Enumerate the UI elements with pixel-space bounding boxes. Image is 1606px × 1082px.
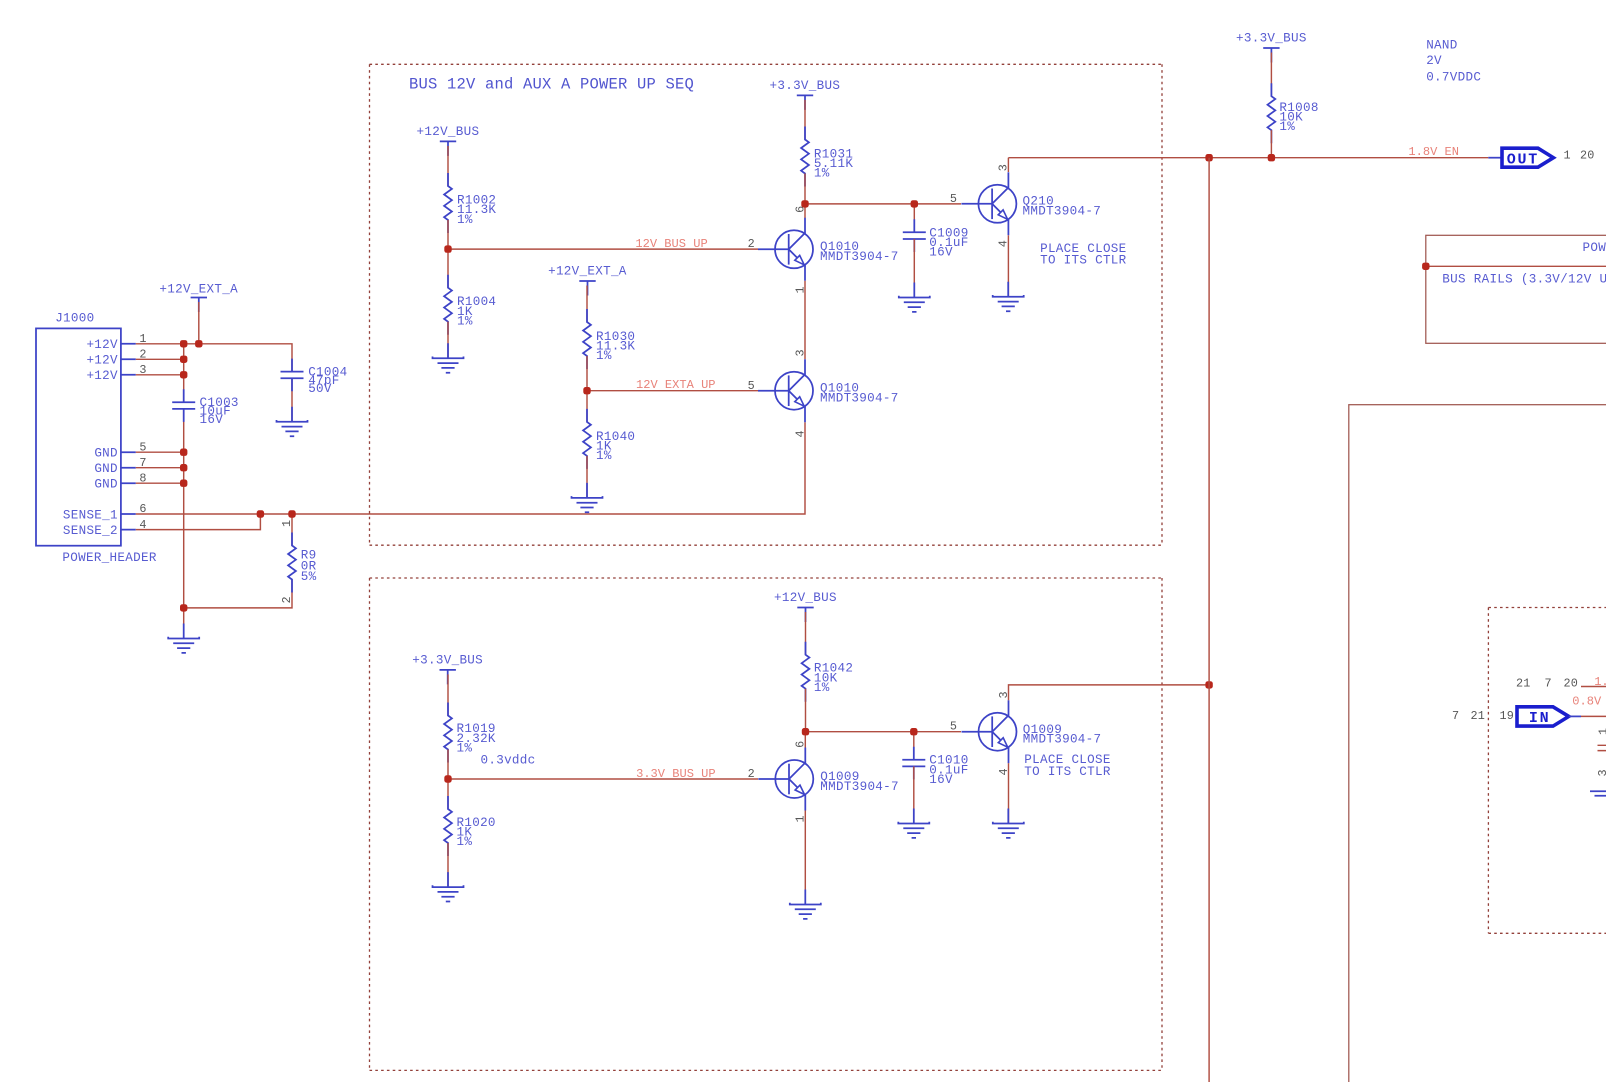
svg-text:16V: 16V (200, 413, 224, 427)
svg-text:1: 1 (793, 286, 807, 293)
resistor R1008 (1268, 83, 1319, 143)
wire R1042 to node 6b (805, 689, 807, 732)
svg-text:SENSE_2: SENSE_2 (63, 524, 118, 538)
svg-text:12V EXTA UP: 12V EXTA UP (636, 378, 716, 392)
IN pin numbers 7 21 19 (1452, 709, 1514, 723)
svg-text:2V: 2V (1426, 54, 1442, 68)
junction pin3 (180, 371, 187, 378)
wire SENSE_2 (136, 514, 261, 530)
wire SENSE_1 net (136, 422, 805, 514)
svg-text:+12V_BUS: +12V_BUS (417, 125, 480, 139)
junction node A (444, 245, 451, 252)
svg-text:+12V: +12V (86, 338, 118, 352)
capacitor C1010 (902, 747, 968, 787)
svg-text:GND: GND (94, 447, 118, 461)
svg-text:1.8: 1.8 (1594, 675, 1606, 689)
wire C1009 top (913, 204, 915, 232)
wire Q210 emitter to ground (1007, 235, 1009, 296)
svg-text:0.7VDDC: 0.7VDDC (1426, 70, 1481, 84)
junction main vertical top (1205, 154, 1212, 161)
svg-text:1%: 1% (814, 681, 830, 695)
svg-text:TO ITS CTLR: TO ITS CTLR (1040, 254, 1127, 268)
port OUT (1488, 148, 1553, 168)
resistor R1020 (444, 796, 496, 856)
svg-text:+12V: +12V (86, 369, 118, 383)
transistor Q1009 a (758, 748, 899, 811)
svg-text:1%: 1% (814, 167, 830, 181)
svg-text:2: 2 (748, 767, 755, 781)
transistor Q1009 b (962, 700, 1102, 763)
wire 12V stem to R1042 (805, 612, 807, 655)
junction sense2 tap (257, 510, 264, 517)
junction node B (583, 387, 590, 394)
box large right frame (1349, 405, 1606, 1082)
svg-text:MMDT3904-7: MMDT3904-7 (820, 780, 899, 794)
wire R1002 to R1004 node A (447, 220, 449, 288)
wire R1008 to 1.8V EN net (1270, 130, 1272, 158)
svg-text:2: 2 (748, 237, 755, 251)
svg-text:3: 3 (1596, 769, 1606, 776)
svg-text:1%: 1% (457, 835, 473, 849)
transistor Q210 (961, 172, 1101, 235)
fragment capacitor plates red (1598, 745, 1606, 750)
svg-text:4: 4 (793, 430, 807, 437)
svg-text:1%: 1% (596, 349, 612, 363)
dashed frame bottom right (1488, 608, 1606, 934)
svg-text:21: 21 (1471, 709, 1485, 723)
wire +12V rail down through C1003 (183, 344, 185, 625)
svg-text:OUT: OUT (1507, 151, 1539, 168)
svg-text:1%: 1% (457, 741, 473, 755)
svg-text:1: 1 (1597, 728, 1606, 735)
svg-text:3: 3 (997, 691, 1011, 698)
svg-text:MMDT3904-7: MMDT3904-7 (1023, 205, 1102, 219)
wire GND pin7 (136, 467, 184, 469)
wire EXT_A stem to R1030 (586, 286, 588, 323)
wire +12V_EXT_A stem (198, 302, 200, 344)
wire main vertical (1208, 158, 1210, 1082)
ground below C1010 (898, 809, 929, 838)
junction C1010 tap (910, 728, 917, 735)
wire 3.3V stem to R1031 (804, 100, 806, 140)
resistor R1040 (583, 409, 635, 469)
svg-text:16V: 16V (929, 773, 953, 787)
ground below R1004 (433, 343, 464, 372)
wire +12V_BUS stem (447, 146, 449, 186)
wire R1004 to ground (447, 322, 449, 359)
wire Q1010a emitter to Q1010b collector (804, 281, 806, 359)
wire R1019 to R1020 node (447, 750, 449, 810)
dashed frame BUS 12V and AUX A POWER UP SEQ (370, 64, 1163, 545)
wire net 12V BUS UP (448, 248, 758, 250)
capacitor C1004 (281, 359, 348, 397)
power +12V_EXT_A box1 (548, 265, 627, 296)
resistor R1002 (444, 173, 496, 233)
svg-text:MMDT3904-7: MMDT3904-7 (1023, 732, 1102, 746)
junction main vertical node (1205, 681, 1212, 688)
junction ground rail (180, 604, 187, 611)
svg-text:1%: 1% (457, 314, 473, 328)
wire Q1009a collector (804, 732, 806, 748)
dashed frame 3.3V bus power up (370, 578, 1163, 1070)
svg-text:5%: 5% (301, 570, 317, 584)
connector J1000 (36, 312, 157, 566)
wire C1004 to ground (291, 378, 293, 422)
svg-text:5: 5 (748, 379, 755, 393)
svg-text:12V BUS UP: 12V BUS UP (635, 237, 707, 251)
power +3.3V_BUS box1 (770, 79, 841, 110)
wire Q1009b collector to main vertical (1009, 685, 1210, 700)
wire C1009 to ground (913, 239, 915, 298)
wire 3.3V stem to R1019 (447, 674, 449, 715)
svg-text:5: 5 (950, 720, 957, 734)
svg-text:0.8V: 0.8V (1572, 694, 1602, 708)
svg-text:20: 20 (1564, 676, 1578, 690)
OUT pin numbers 1 20 (1564, 148, 1595, 162)
svg-text:1%: 1% (457, 213, 473, 227)
wire net 3.3V BUS UP (448, 778, 758, 780)
wire GND pin5 (136, 451, 184, 453)
ground below J1000 rail (168, 624, 199, 653)
svg-text:2: 2 (280, 596, 294, 603)
wire Q1010a collector (804, 204, 806, 218)
junction gnd7 (180, 464, 187, 471)
wire GND pin8 (136, 482, 184, 484)
svg-text:7: 7 (1545, 676, 1552, 690)
svg-text:POWER_HEADER: POWER_HEADER (62, 551, 156, 565)
svg-text:3: 3 (997, 164, 1011, 171)
junction gnd8 (180, 480, 187, 487)
port IN (1517, 707, 1581, 727)
svg-text:3: 3 (793, 349, 807, 356)
note PLACE CLOSE TO ITS CTLR box1 (1040, 242, 1127, 267)
svg-text:1.8V EN: 1.8V EN (1408, 145, 1459, 159)
transistor Q1010 b (758, 359, 899, 422)
svg-text:J1000: J1000 (55, 312, 94, 326)
ground below Q1009b (993, 809, 1024, 838)
resistor R1031 (801, 127, 853, 187)
svg-text:1%: 1% (596, 449, 612, 463)
wire 3.3V stem to R1008 (1270, 53, 1272, 97)
svg-text:MMDT3904-7: MMDT3904-7 (820, 392, 899, 406)
junction EXT_A stem (195, 340, 202, 347)
capacitor C1003 (172, 389, 239, 427)
power +3.3V_BUS box2 (412, 653, 483, 684)
wire pin1 to C1004 (136, 344, 292, 372)
wire bus rails (1426, 265, 1606, 267)
note PLACE CLOSE TO ITS CTLR box2 (1024, 753, 1111, 779)
wire R1031 to node 6 (804, 174, 806, 204)
capacitor C1009 (903, 219, 969, 259)
resistor R1019 (444, 703, 496, 763)
junction R1008 tap (1268, 154, 1275, 161)
ground below Q210 (993, 282, 1024, 311)
junction pin1 rail (180, 340, 187, 347)
svg-text:MMDT3904-7: MMDT3904-7 (820, 250, 899, 264)
svg-text:50V: 50V (308, 382, 332, 396)
wire C1010 to ground (913, 766, 915, 823)
svg-text:SENSE_1: SENSE_1 (63, 508, 118, 522)
wire Q210 collector up (1007, 158, 1009, 172)
resistor R1042 (802, 642, 854, 702)
svg-text:POWER: POWER (1583, 241, 1606, 255)
power +12V_BUS box2 (774, 591, 837, 622)
svg-text:+12V_EXT_A: +12V_EXT_A (159, 283, 238, 297)
junction bus rails (1422, 263, 1429, 270)
junction gnd5 (180, 449, 187, 456)
svg-text:1: 1 (1564, 148, 1571, 162)
power +12V_BUS (417, 125, 480, 156)
svg-text:0.3vddc: 0.3vddc (481, 754, 536, 768)
ground below R1040 (572, 483, 603, 512)
wire stub 1.8 net (1581, 686, 1606, 688)
svg-text:6: 6 (794, 741, 808, 748)
svg-text:NAND: NAND (1426, 39, 1457, 53)
wire IN net (1581, 715, 1606, 717)
junction node 6 (801, 200, 808, 207)
svg-text:+3.3V_BUS: +3.3V_BUS (1236, 32, 1307, 46)
wire R9 bottom to ground rail (184, 580, 292, 608)
svg-text:3.3V BUS UP: 3.3V BUS UP (636, 767, 716, 781)
wire net 12V EXTA UP (587, 390, 758, 392)
svg-text:+3.3V_BUS: +3.3V_BUS (412, 653, 483, 667)
power +12V_EXT_A (159, 283, 238, 313)
wire pin2 (136, 358, 184, 360)
svg-text:GND: GND (94, 462, 118, 476)
svg-text:+12V_EXT_A: +12V_EXT_A (548, 265, 627, 279)
svg-text:4: 4 (997, 240, 1011, 247)
svg-text:19: 19 (1500, 709, 1514, 723)
junction C1009 tap (911, 200, 918, 207)
IN pin numbers 21 7 20 (1516, 676, 1578, 690)
wire R1040 to ground (586, 456, 588, 498)
svg-text:BUS RAILS (3.3V/12V UP: BUS RAILS (3.3V/12V UP (1442, 273, 1606, 287)
svg-text:21: 21 (1516, 676, 1530, 690)
svg-text:5: 5 (950, 192, 957, 206)
resistor R1030 (583, 309, 635, 369)
svg-text:20: 20 (1580, 148, 1594, 162)
svg-text:7: 7 (1452, 709, 1459, 723)
wire R1020 to ground (447, 843, 449, 887)
wire net 1.8V EN (1008, 157, 1488, 159)
ground below R1020 (433, 872, 464, 901)
svg-text:GND: GND (94, 478, 118, 492)
svg-text:1: 1 (794, 815, 808, 822)
svg-text:IN: IN (1529, 710, 1550, 727)
junction R9 top (288, 510, 295, 517)
wire node 6 to Q210 base (805, 203, 961, 205)
ground below C1004 (277, 407, 308, 436)
wire R9 top (291, 514, 293, 546)
resistor R9 (288, 533, 317, 593)
note NAND 2V 0.7VDDC (1426, 39, 1481, 85)
svg-text:16V: 16V (929, 246, 953, 260)
wire pin3 (136, 374, 184, 376)
ground below Q1009a (790, 890, 821, 919)
box POWER rails (1426, 235, 1606, 343)
resistor R1004 (444, 275, 496, 335)
svg-text:1%: 1% (1279, 120, 1295, 134)
wire R1030 to R1040 node B (586, 356, 588, 422)
junction node vddc (444, 775, 451, 782)
svg-text:+12V: +12V (86, 354, 118, 368)
junction pin2 (180, 356, 187, 363)
wire C1010 top (913, 732, 915, 760)
power +3.3V_BUS R1008 (1236, 32, 1307, 63)
svg-text:+3.3V_BUS: +3.3V_BUS (770, 79, 841, 93)
fragment ground blue (1590, 791, 1606, 796)
wire node 6b to Q1009b base (806, 731, 962, 733)
wire Q1009b emitter to ground (1008, 763, 1010, 823)
svg-text:1: 1 (280, 520, 294, 527)
wire Q1009a emitter to ground (804, 811, 806, 890)
svg-text:TO ITS CTLR: TO ITS CTLR (1024, 765, 1111, 779)
svg-text:+12V_BUS: +12V_BUS (774, 591, 837, 605)
ground below C1009 (899, 283, 930, 312)
junction node 6b (802, 728, 809, 735)
svg-text:BUS 12V and AUX A POWER UP SEQ: BUS 12V and AUX A POWER UP SEQ (409, 75, 694, 93)
transistor Q1010 a (758, 218, 899, 281)
svg-text:4: 4 (997, 768, 1011, 775)
